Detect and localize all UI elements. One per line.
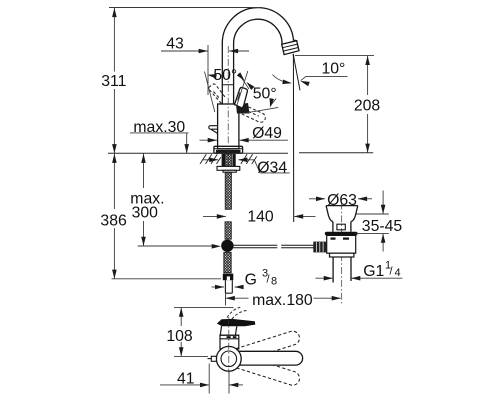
- svg-text:4: 4: [395, 267, 401, 279]
- svg-text:300: 300: [132, 205, 159, 222]
- svg-text:Ø63: Ø63: [327, 192, 357, 209]
- svg-text:G1: G1: [363, 263, 384, 280]
- svg-text:8: 8: [271, 276, 277, 288]
- svg-text:50°: 50°: [253, 86, 277, 103]
- svg-text:386: 386: [100, 212, 127, 229]
- svg-text:Ø34: Ø34: [257, 159, 287, 176]
- svg-text:108: 108: [166, 328, 193, 345]
- svg-text:Ø49: Ø49: [252, 125, 282, 142]
- svg-text:max.180: max.180: [252, 292, 313, 309]
- svg-text:10°: 10°: [321, 60, 345, 77]
- svg-text:50°: 50°: [213, 67, 237, 84]
- svg-text:140: 140: [247, 209, 274, 226]
- svg-text:311: 311: [101, 73, 126, 90]
- svg-text:208: 208: [354, 98, 381, 115]
- svg-text:43: 43: [166, 35, 184, 52]
- svg-text:41: 41: [177, 370, 195, 387]
- svg-text:35-45: 35-45: [362, 218, 403, 235]
- svg-text:G: G: [245, 271, 257, 288]
- svg-text:max.30: max.30: [133, 119, 185, 136]
